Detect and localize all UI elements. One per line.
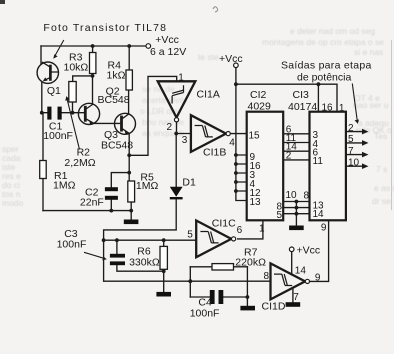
- svg-text:16: 16: [322, 102, 334, 113]
- wire top +V rail left: [41, 45, 146, 47]
- node C3 top: [102, 238, 106, 242]
- svg-text:dr se: dr se: [372, 196, 391, 206]
- svg-text:si e nas: si e nas: [354, 47, 383, 57]
- node R2 bottom: [71, 111, 75, 115]
- wire R7 left lead: [190, 266, 212, 268]
- svg-text:CI1C: CI1C: [212, 218, 236, 230]
- node dots: [40, 44, 320, 299]
- node R4 top rail: [127, 44, 131, 48]
- svg-text:5: 5: [187, 230, 193, 241]
- svg-text:Q1: Q1: [47, 85, 61, 97]
- svg-text:100nF: 100nF: [57, 239, 87, 251]
- svg-text:220kΩ: 220kΩ: [235, 257, 266, 269]
- node bus pin4: [234, 180, 238, 184]
- wire CI3 output stubs: [346, 132, 363, 167]
- svg-text:1kΩ: 1kΩ: [107, 70, 126, 82]
- svg-text:te ste: te ste: [198, 52, 219, 62]
- wire CI1C out to CI2 pin1: [238, 220, 263, 239]
- svg-text:D1: D1: [182, 176, 196, 188]
- svg-text:14: 14: [295, 265, 307, 276]
- leader arrow Foto Transistor: [53, 40, 64, 59]
- svg-text:9: 9: [315, 272, 321, 283]
- svg-text:1MΩ: 1MΩ: [136, 180, 159, 192]
- svg-text:4: 4: [229, 137, 235, 148]
- wire Q1 emitter down: [41, 83, 43, 113]
- svg-text:6 a 12V: 6 a 12V: [150, 46, 186, 58]
- node R6 top: [162, 238, 166, 242]
- svg-text:Foto Transistor TIL78: Foto Transistor TIL78: [43, 22, 167, 34]
- ground (CI1D pin7): [286, 302, 301, 307]
- wire ground stem R6: [163, 271, 165, 292]
- background bleed-through text: [2, 26, 394, 208]
- corner mark: [0, 0, 5, 4]
- svg-text:Saídas para etapa: Saídas para etapa: [281, 60, 372, 72]
- svg-text:7 s: 7 s: [376, 164, 387, 174]
- svg-text:CI1A: CI1A: [197, 89, 220, 101]
- svg-text:1: 1: [178, 73, 184, 84]
- svg-text:5: 5: [277, 210, 283, 221]
- wire C3 bottom to R6 bottom: [117, 265, 164, 271]
- wire CI2 pin15 from CI1B out: [230, 133, 246, 135]
- svg-text:1MΩ: 1MΩ: [53, 180, 76, 192]
- wire R4 top stub: [128, 46, 130, 70]
- svg-text:+Vcc: +Vcc: [219, 53, 243, 65]
- wire Q2 emitter to Q3 base: [94, 122, 121, 124]
- wire C1 row (base line): [42, 112, 85, 114]
- svg-text:22nF: 22nF: [80, 197, 104, 209]
- node C3 riser: [115, 238, 119, 242]
- leader arrow Saidas: [352, 84, 359, 124]
- svg-text:CI2: CI2: [250, 89, 267, 101]
- node C4 right: [246, 295, 250, 299]
- svg-text:10: 10: [286, 190, 298, 201]
- svg-text:se ne de: se ne de: [142, 84, 175, 94]
- wire R2 bottom stub: [72, 102, 74, 113]
- wire R6 top stub: [163, 240, 165, 246]
- wire R3 bottom to Q2 collector: [92, 74, 94, 105]
- wire D1 cathode to C3 node: [104, 199, 177, 240]
- IC CI2 4029: [247, 112, 284, 221]
- svg-text:montagens de op cro etapa o se: montagens de op cro etapa o se: [262, 37, 384, 47]
- leader arrow R2: [65, 96, 79, 149]
- svg-text:11: 11: [313, 156, 324, 167]
- svg-text:modo: modo: [2, 198, 24, 208]
- wire +Vcc2 drop and CI2 left bus: [236, 68, 247, 201]
- op-amp CI1D: [271, 263, 310, 299]
- svg-text:e deter nad om od seg: e deter nad om od seg: [290, 26, 375, 36]
- node tie3: [295, 212, 299, 216]
- svg-text:2: 2: [286, 150, 292, 161]
- wire feedback loop left and pin8 row: [104, 240, 271, 281]
- terminal +Vcc1: [146, 44, 151, 49]
- transistor Q1: [37, 62, 58, 83]
- svg-text:5: 5: [348, 134, 354, 145]
- svg-text:40174: 40174: [288, 101, 317, 113]
- capacitor C1: [47, 107, 61, 120]
- svg-text:8: 8: [304, 191, 310, 202]
- svg-text:8: 8: [264, 271, 270, 282]
- IC CI3 40174: [310, 112, 346, 221]
- wire R1 riser bottom: [42, 179, 44, 211]
- wire R3 top stub: [92, 46, 94, 53]
- node Q1 emitter / C1 / R1: [40, 111, 44, 115]
- svg-text:BC548: BC548: [101, 140, 133, 152]
- svg-text:6: 6: [237, 225, 243, 236]
- svg-text:Tes: Tes: [374, 131, 387, 141]
- ground (C4 stub): [240, 306, 255, 311]
- wire Q1 collector riser: [40, 46, 42, 64]
- node R5 bottom rail: [129, 209, 133, 213]
- wire CI3 pin16 stub: [317, 84, 319, 112]
- wire R4 bottom to Q3 collector: [128, 90, 130, 114]
- resistor R6: [160, 246, 167, 269]
- wire D1 anode: [175, 134, 177, 188]
- svg-text:+Vcc: +Vcc: [155, 34, 179, 46]
- node bus pin9: [234, 153, 238, 157]
- svg-text:CI1D: CI1D: [262, 301, 286, 313]
- svg-text:nao ser u: nao ser u: [353, 100, 389, 110]
- wire R5 bottom stub: [130, 202, 132, 211]
- svg-text:3: 3: [182, 135, 188, 146]
- terminal +Vcc3 CI1D: [289, 247, 294, 252]
- wire R7 right lead: [234, 266, 248, 268]
- node bus pin16: [234, 162, 238, 166]
- svg-text:BC548: BC548: [98, 94, 130, 106]
- node C2 / R5 top: [127, 171, 131, 175]
- diode D1: [170, 187, 183, 200]
- node bus pin12: [234, 189, 238, 193]
- resistor R7: [212, 264, 234, 270]
- resistor R1: [40, 161, 47, 179]
- svg-text:2: 2: [167, 122, 173, 133]
- wire R1 riser top: [42, 113, 44, 161]
- ground (inter-IC tie): [289, 226, 304, 231]
- svg-text:13: 13: [250, 197, 262, 208]
- capacitor C2: [105, 187, 118, 200]
- svg-text:9: 9: [321, 223, 327, 234]
- wire CI1C pin5 row: [104, 239, 197, 241]
- svg-text:1: 1: [339, 103, 345, 114]
- svg-text:7: 7: [293, 292, 299, 303]
- svg-text:CI3: CI3: [293, 89, 310, 101]
- svg-text:CI1B: CI1B: [203, 147, 226, 159]
- op-amp CI1A: [158, 81, 196, 122]
- capacitor C4: [210, 290, 224, 304]
- wire Q3 emitter down: [128, 134, 130, 173]
- wire C2 bottom stub: [110, 200, 112, 211]
- wire bottom rail left: [43, 210, 131, 212]
- wire inter-IC ground stem: [295, 202, 297, 226]
- svg-text:de potência: de potência: [297, 72, 351, 84]
- node R3 top rail: [91, 44, 95, 48]
- svg-text:100nF: 100nF: [190, 308, 220, 320]
- wire C4 leads: [190, 296, 247, 298]
- wire R2 jog from R3 node: [73, 76, 93, 82]
- leader arrow C3: [84, 252, 107, 260]
- stray mark: [213, 7, 218, 12]
- node R6 bottom: [162, 269, 166, 273]
- terminal +Vcc2: [234, 63, 239, 68]
- op-amp CI1B: [191, 115, 230, 152]
- node R7C4 left: [188, 279, 192, 283]
- wire CI1B input: [177, 133, 191, 135]
- resistor R2: [69, 82, 76, 103]
- output arrows CI3: [362, 129, 369, 169]
- wire inter-IC stubs top: [283, 134, 309, 160]
- node CI1A out / D1 / CI1B in: [174, 132, 178, 136]
- resistor R4: [126, 70, 132, 90]
- page edge artifact line: [391, 40, 393, 210]
- node bus pin3: [234, 171, 238, 175]
- svg-text:+Vcc: +Vcc: [297, 245, 321, 257]
- wire CI1D out to CI3 pin9: [310, 220, 328, 281]
- capacitor C3: [110, 254, 125, 265]
- wire R7C4 left stub: [189, 267, 191, 297]
- node tie1: [295, 200, 299, 204]
- svg-text:14: 14: [313, 209, 325, 220]
- wire CI1D pin7 stem: [292, 289, 294, 303]
- svg-text:330kΩ: 330kΩ: [129, 256, 160, 268]
- wire C2 jog: [111, 173, 129, 187]
- resistor R3: [90, 53, 96, 74]
- node tie2: [295, 206, 299, 210]
- wire inter-IC bottom ties: [283, 202, 309, 214]
- wire CI2 bus stubs 9 16 3 4 12: [236, 155, 247, 191]
- op-amp CI1C: [196, 221, 236, 258]
- wire R7C4 right stub: [246, 267, 248, 306]
- svg-text:2,2MΩ: 2,2MΩ: [64, 157, 95, 169]
- svg-text:100nF: 100nF: [43, 130, 73, 142]
- node Q3 emitter / CI1A pin1: [127, 153, 131, 157]
- wire Q3 emitter node to CI1A pin1: [129, 76, 177, 155]
- svg-text:2: 2: [348, 123, 354, 134]
- wire CI1D vcc pin14: [291, 252, 293, 275]
- svg-text:10kΩ: 10kΩ: [64, 62, 89, 74]
- transistor Q2: [78, 103, 99, 125]
- wire CI1A out down: [176, 122, 178, 134]
- node C2 bottom rail: [109, 209, 113, 213]
- wire ground stem R5 rail: [130, 211, 132, 220]
- svg-text:7: 7: [348, 146, 354, 157]
- wire +Vcc2 rail to CI3 pins 16 1: [236, 84, 337, 112]
- wire R6 bottom stub: [163, 269, 165, 271]
- node CI3 pin16 rail: [317, 82, 321, 86]
- ground (R6): [156, 292, 171, 297]
- svg-text:1: 1: [259, 224, 265, 235]
- ground (R5 rail): [124, 220, 139, 225]
- node R3 bottom / R2 top: [91, 74, 95, 78]
- svg-text:10: 10: [348, 157, 360, 168]
- node +Vcc2 rail: [234, 82, 238, 86]
- wire C3 riser: [116, 240, 118, 254]
- wire R5 top stub: [128, 173, 130, 181]
- svg-text:15: 15: [249, 130, 261, 141]
- svg-text:4029: 4029: [248, 101, 272, 113]
- transistor Q3: [115, 113, 136, 134]
- resistor R5: [128, 181, 135, 202]
